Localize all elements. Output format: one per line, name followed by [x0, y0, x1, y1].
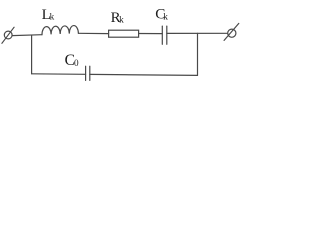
capacitor C0 plate 1 — [85, 66, 87, 80]
capacitor Ck plate 1 — [161, 26, 163, 44]
wire: left junction vertical (node A) — [31, 35, 33, 74]
inductor Lk — [42, 26, 78, 35]
wire: bottom rail right — [90, 74, 198, 75]
wire: capacitor Ck to right terminal — [167, 32, 228, 34]
svg-text:Ck: Ck — [155, 6, 168, 23]
wire: bottom rail left — [32, 73, 86, 76]
wire: resistor to capacitor Ck — [139, 33, 163, 35]
wire: inductor to resistor — [78, 32, 108, 34]
wire: right junction vertical (node B) — [197, 33, 199, 75]
svg-text:Lk: Lk — [42, 6, 55, 23]
svg-text:Rk: Rk — [111, 10, 125, 26]
capacitor Ck plate 2 — [166, 26, 168, 44]
svg-text:C0: C0 — [65, 52, 79, 69]
port left terminal — [2, 27, 14, 43]
port right terminal — [224, 23, 239, 40]
wire: left terminal to inductor — [12, 34, 42, 37]
resistor Rk — [109, 30, 139, 37]
capacitor C0 plate 2 — [89, 66, 91, 80]
